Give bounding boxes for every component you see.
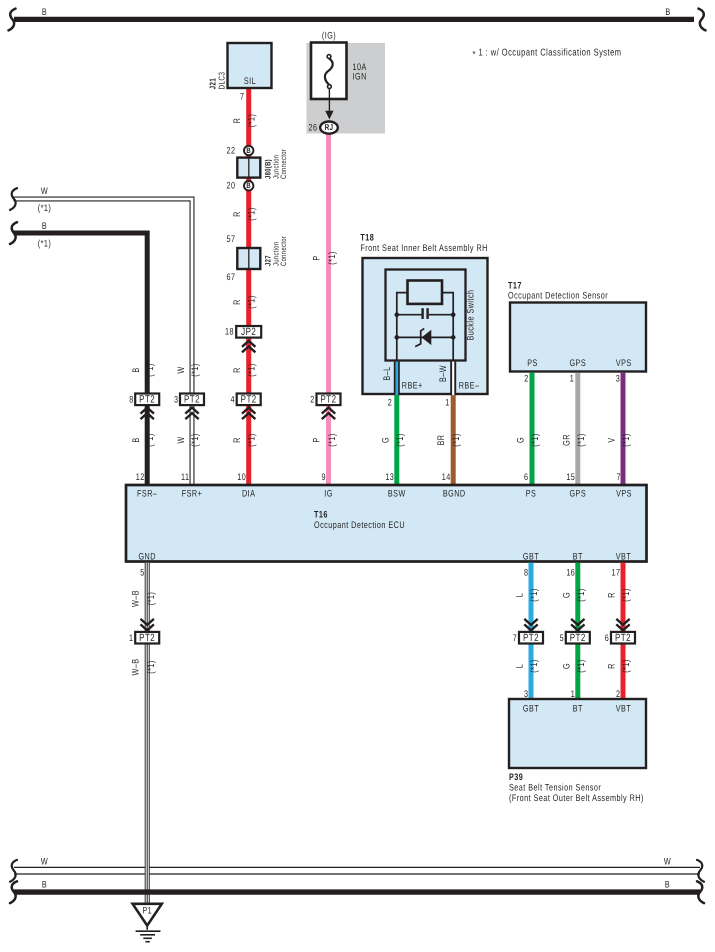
wire bus W bottom xyxy=(14,867,700,875)
svg-text:B: B xyxy=(665,7,670,18)
svg-text:Occupant Detection ECU: Occupant Detection ECU xyxy=(314,520,405,531)
label (*1) R upper xyxy=(247,114,258,128)
label Junction (J27) xyxy=(272,241,281,266)
svg-text:L: L xyxy=(515,664,526,668)
block T18 title xyxy=(360,233,488,255)
wire G green PS xyxy=(530,373,535,486)
label (*1) GBT xyxy=(529,588,540,602)
label B bottom-right xyxy=(665,880,670,891)
label W lower xyxy=(176,436,187,443)
svg-text:B: B xyxy=(665,880,670,891)
pin 5 PT2 xyxy=(560,633,564,644)
label P lower xyxy=(312,437,323,442)
svg-text:PT2: PT2 xyxy=(184,394,200,406)
junction dot diode right xyxy=(451,335,456,340)
block T17 title xyxy=(508,281,608,302)
label G BT lower xyxy=(561,663,572,669)
wire B black left xyxy=(14,233,148,486)
svg-text:18: 18 xyxy=(225,327,234,338)
pin 1 of T17 xyxy=(570,374,574,385)
pin 3 of T17 xyxy=(616,374,620,385)
svg-text:B: B xyxy=(42,880,47,891)
pin 57 xyxy=(227,234,236,245)
connector PT2 row2 c xyxy=(566,632,590,644)
label (*1) W vertical xyxy=(190,363,201,377)
svg-text:W: W xyxy=(41,186,48,197)
svg-text:W: W xyxy=(176,366,187,373)
wire G green BT xyxy=(575,563,580,699)
pin 7 of DLC3 xyxy=(240,92,244,103)
pin 6 PT2 xyxy=(605,633,609,644)
svg-text:RJ: RJ xyxy=(325,122,334,132)
svg-text:1: 1 xyxy=(445,398,449,409)
label (*1) R mid2 xyxy=(247,295,258,309)
label G BT xyxy=(561,592,572,598)
label (*1) B vertical xyxy=(145,363,156,377)
svg-text:PT2: PT2 xyxy=(139,632,155,644)
pin 2 above P39 xyxy=(616,689,620,700)
wire right branch inside buckle switch xyxy=(442,293,453,361)
wire GR gray GPS xyxy=(575,373,580,486)
svg-text:W–B: W–B xyxy=(131,590,142,607)
svg-text:(*1): (*1) xyxy=(621,659,632,673)
label R VBT xyxy=(607,592,618,598)
svg-text:(*1): (*1) xyxy=(190,433,201,447)
terminator left of bottom W bus xyxy=(10,860,17,882)
block P39 Seat Belt Tension Sensor xyxy=(509,699,646,768)
svg-text:13: 13 xyxy=(385,472,394,483)
terminator left of B wire xyxy=(10,222,17,244)
pin 16 below T16 xyxy=(566,568,575,579)
svg-text:B: B xyxy=(42,221,47,232)
junction dot cap right xyxy=(451,312,456,317)
arrowhead to RJ xyxy=(325,111,333,120)
svg-text:(*1): (*1) xyxy=(529,659,540,673)
svg-text:RBE+: RBE+ xyxy=(402,381,423,392)
ground P1 triangle xyxy=(133,904,162,926)
pin 14 xyxy=(442,472,451,483)
svg-text:GBT: GBT xyxy=(523,552,539,563)
svg-text:(*1): (*1) xyxy=(530,433,541,447)
label W bottom-right xyxy=(664,857,671,868)
svg-text:R: R xyxy=(232,118,243,124)
label W-B lower xyxy=(131,658,142,675)
label L GBT xyxy=(515,593,526,597)
svg-text:(*1): (*1) xyxy=(146,660,157,674)
svg-text:B: B xyxy=(246,181,251,190)
label G xyxy=(380,437,391,443)
svg-text:R: R xyxy=(232,211,243,217)
label B left wire xyxy=(42,221,47,232)
pin 11 xyxy=(181,472,189,483)
svg-text:(*1): (*1) xyxy=(327,433,338,447)
svg-text:3: 3 xyxy=(616,374,620,385)
pin 13 xyxy=(385,472,394,483)
label RBE+ xyxy=(402,381,423,392)
label W bottom-left xyxy=(41,857,48,868)
svg-text:PT2: PT2 xyxy=(139,394,155,406)
svg-text:PT2: PT2 xyxy=(523,632,539,644)
svg-text:16: 16 xyxy=(566,568,575,579)
svg-text:B: B xyxy=(246,146,251,155)
svg-text:(IG): (IG) xyxy=(322,31,336,42)
svg-text:(*1): (*1) xyxy=(327,251,338,265)
svg-text:PS: PS xyxy=(527,358,538,369)
wire V violet VPS xyxy=(621,373,626,486)
svg-text:2: 2 xyxy=(524,374,528,385)
block P39 title xyxy=(509,772,644,804)
label B vertical xyxy=(131,367,142,372)
label B bottom-left xyxy=(42,880,47,891)
pin 1 above P39 xyxy=(571,689,575,700)
svg-text:W: W xyxy=(664,857,671,868)
label (*1) PS xyxy=(530,433,541,447)
svg-text:(*1): (*1) xyxy=(576,659,587,673)
pin 7 of T16 xyxy=(617,472,621,483)
chevrons above PT2 row2 a xyxy=(141,619,154,631)
svg-text:7: 7 xyxy=(513,633,517,644)
wire bus B top xyxy=(14,17,694,22)
svg-text:6: 6 xyxy=(524,472,528,483)
wire R red VBT xyxy=(621,563,626,699)
svg-text:PS: PS xyxy=(526,489,537,500)
terminator right of top B bus xyxy=(699,9,706,31)
svg-text:P39: P39 xyxy=(509,772,523,783)
label RBE- xyxy=(459,381,480,392)
svg-text:(*1): (*1) xyxy=(247,207,258,221)
label (*1) W-B lower xyxy=(146,660,157,674)
ECU T16 Occupant Detection ECU xyxy=(126,485,647,563)
fuse element xyxy=(325,55,333,89)
pin 8 xyxy=(129,394,133,405)
svg-text:(*1): (*1) xyxy=(395,433,406,447)
svg-text:RBE–: RBE– xyxy=(459,381,480,392)
svg-text:1: 1 xyxy=(570,374,574,385)
svg-text:2: 2 xyxy=(310,394,314,405)
label J80(B) xyxy=(264,159,273,179)
label (*1) VBT lower xyxy=(621,659,632,673)
svg-text:14: 14 xyxy=(442,472,451,483)
label V VPS xyxy=(607,437,618,442)
connector PT2 row1 a xyxy=(135,394,159,406)
junction circle B pin 20 xyxy=(244,181,253,190)
label Connector (J80) xyxy=(279,149,288,179)
svg-text:VPS: VPS xyxy=(616,489,632,500)
label P on pink wire xyxy=(312,255,323,260)
wire R red (SIL/DIA) xyxy=(246,88,251,486)
label Connector (J27) xyxy=(279,236,288,266)
svg-text:VBT: VBT xyxy=(616,552,631,563)
svg-text:VPS: VPS xyxy=(616,358,632,369)
label (*1) P lower xyxy=(327,433,338,447)
svg-text:3: 3 xyxy=(174,394,178,405)
pin 15 xyxy=(566,472,575,483)
pin 8 below T16 xyxy=(524,568,528,579)
svg-text:(*1): (*1) xyxy=(247,295,258,309)
pin 2 xyxy=(310,394,314,405)
svg-text:W: W xyxy=(176,436,187,443)
connector PT2 row1 d xyxy=(317,394,341,406)
wire G green BSW xyxy=(394,395,399,486)
chevrons above PT2 BT xyxy=(571,619,584,631)
svg-text:G: G xyxy=(516,437,527,443)
svg-text:T16: T16 xyxy=(314,510,328,521)
label (*1) B left wire xyxy=(38,239,52,250)
label B lower xyxy=(131,437,142,442)
svg-text:6: 6 xyxy=(605,633,609,644)
pin 9 xyxy=(322,472,326,483)
label (*1) B lower xyxy=(145,433,156,447)
wire fuse to RJ xyxy=(328,88,330,112)
label DLC3 xyxy=(217,72,227,90)
svg-text:(*1): (*1) xyxy=(576,433,587,447)
pin 7 PT2 xyxy=(513,633,517,644)
svg-text:VBT: VBT xyxy=(616,704,631,715)
label B-W xyxy=(438,365,449,382)
svg-text:L: L xyxy=(515,593,526,597)
label L GBT lower xyxy=(515,664,526,668)
pin 1 of T18 xyxy=(445,398,449,409)
pin 3 above P39 xyxy=(524,689,528,700)
svg-text:PT2: PT2 xyxy=(615,632,631,644)
wire L blue GBT xyxy=(529,563,534,699)
svg-text:IG: IG xyxy=(324,489,333,500)
svg-text:5: 5 xyxy=(140,568,144,579)
svg-text:(Front Seat Outer Belt Assembl: (Front Seat Outer Belt Assembly RH) xyxy=(509,793,644,804)
pin 10 xyxy=(237,472,246,483)
svg-text:BSW: BSW xyxy=(388,489,406,500)
svg-text:11: 11 xyxy=(181,472,189,483)
svg-text:5: 5 xyxy=(560,633,564,644)
label W left wire xyxy=(41,186,48,197)
svg-text:7: 7 xyxy=(617,472,621,483)
svg-text:R: R xyxy=(232,437,243,443)
svg-text:(*1): (*1) xyxy=(621,588,632,602)
svg-text:22: 22 xyxy=(227,145,236,156)
svg-text:4: 4 xyxy=(231,394,235,405)
label (*1) R lower xyxy=(247,433,258,447)
chevrons above PT2 VBT xyxy=(616,619,629,631)
wire W white left xyxy=(14,199,193,486)
svg-text:R: R xyxy=(232,367,243,373)
svg-text:P: P xyxy=(312,437,323,442)
svg-text:BGND: BGND xyxy=(443,489,466,500)
svg-text:(*1): (*1) xyxy=(38,203,52,214)
terminator right of bottom B bus xyxy=(697,881,704,903)
svg-text:12: 12 xyxy=(136,472,145,483)
ground hatch xyxy=(136,931,161,942)
svg-text:BT: BT xyxy=(573,704,583,715)
svg-text:W: W xyxy=(41,857,48,868)
pin 67 xyxy=(227,272,236,283)
label G PS xyxy=(516,437,527,443)
svg-text:FSR+: FSR+ xyxy=(182,489,203,500)
wire P pink (IG feed) xyxy=(326,133,331,486)
svg-text:P1: P1 xyxy=(142,906,151,917)
svg-text:PT2: PT2 xyxy=(320,394,336,406)
label J21 xyxy=(208,78,218,90)
ground stem xyxy=(146,926,148,930)
svg-text:(*1): (*1) xyxy=(145,363,156,377)
svg-text:T18: T18 xyxy=(360,233,374,244)
label B top-right xyxy=(665,7,670,18)
svg-text:(*1): (*1) xyxy=(451,433,462,447)
label R mid3 xyxy=(232,367,243,373)
label (*1) R mid1 xyxy=(247,207,258,221)
svg-text:(*1): (*1) xyxy=(576,588,587,602)
svg-text:9: 9 xyxy=(322,472,326,483)
svg-text:GBT: GBT xyxy=(523,704,539,715)
label (*1) GBT lower xyxy=(529,659,540,673)
svg-text:67: 67 xyxy=(227,272,236,283)
label (*1) W lower xyxy=(190,433,201,447)
terminator left of W wire xyxy=(10,188,17,210)
svg-text:(*1): (*1) xyxy=(621,433,632,447)
junction connector J80(B) xyxy=(237,158,260,178)
svg-text:P: P xyxy=(312,255,323,260)
svg-text:(*1): (*1) xyxy=(529,588,540,602)
connector JP2 xyxy=(236,326,261,338)
svg-text:(*1): (*1) xyxy=(247,363,258,377)
label (*1) BT xyxy=(576,588,587,602)
wire W-B ground wire xyxy=(145,563,150,904)
block T18 Front Seat Inner Belt Assembly RH xyxy=(363,258,488,394)
note occupant classification xyxy=(473,48,622,61)
label (*1) BT lower xyxy=(576,659,587,673)
chevrons below PT2 c xyxy=(242,408,255,420)
label R mid1 xyxy=(232,211,243,217)
svg-text:BT: BT xyxy=(573,552,583,563)
chevrons below PT2 b xyxy=(185,408,198,420)
label J27 xyxy=(264,255,273,266)
label (*1) R mid3 xyxy=(247,363,258,377)
chevrons above PT2 GBT xyxy=(524,619,537,631)
svg-text:G: G xyxy=(380,437,391,443)
terminator right of bottom W bus xyxy=(697,860,704,882)
junction dot cap left xyxy=(395,312,400,317)
svg-text:B–W: B–W xyxy=(438,365,449,382)
connector PT2 row2 b xyxy=(519,632,543,644)
svg-text:(*1): (*1) xyxy=(146,592,157,606)
svg-text:8: 8 xyxy=(524,568,528,579)
svg-text:B: B xyxy=(42,7,47,18)
svg-text:Connector: Connector xyxy=(279,236,288,266)
connector PT2 row2 d xyxy=(611,632,635,644)
label R lower xyxy=(232,437,243,443)
svg-text:V: V xyxy=(607,437,618,442)
label (*1) BR xyxy=(451,433,462,447)
pin 26 of RJ xyxy=(309,123,318,134)
svg-text:B: B xyxy=(131,437,142,442)
svg-text:B–L: B–L xyxy=(382,366,393,380)
label (*1) GPS xyxy=(576,433,587,447)
svg-text:R: R xyxy=(607,592,618,598)
label (*1) VBT xyxy=(621,588,632,602)
svg-text:1: 1 xyxy=(129,633,133,644)
svg-text:2: 2 xyxy=(388,398,392,409)
label Junction (J80) xyxy=(272,154,281,179)
svg-text:JP2: JP2 xyxy=(241,326,256,338)
svg-text:7: 7 xyxy=(240,92,244,103)
label (*1) W left wire xyxy=(38,203,52,214)
terminator left of bottom B bus xyxy=(10,881,17,903)
label B top-left xyxy=(42,7,47,18)
pin 2 of T17 xyxy=(524,374,528,385)
label W-B upper xyxy=(131,590,142,607)
wire bus B bottom xyxy=(14,889,700,894)
svg-text:FSR–: FSR– xyxy=(137,489,157,500)
svg-text:W–B: W–B xyxy=(131,658,142,675)
svg-text:* 1 : w/ Occupant Classificati: * 1 : w/ Occupant Classification System xyxy=(473,48,622,61)
label W vertical xyxy=(176,366,187,373)
pin 6 xyxy=(524,472,528,483)
wire B-W stripe xyxy=(450,362,456,396)
label (*1) W-B upper xyxy=(146,592,157,606)
pin 3 xyxy=(174,394,178,405)
label R VBT lower xyxy=(607,663,618,669)
label R upper xyxy=(232,118,243,124)
svg-text:PT2: PT2 xyxy=(570,632,586,644)
svg-text:10: 10 xyxy=(237,472,246,483)
svg-text:GR: GR xyxy=(561,434,572,446)
fuse block 10A IGN xyxy=(307,43,386,134)
svg-text:PT2: PT2 xyxy=(241,394,257,406)
block T17 Occupant Detection Sensor xyxy=(510,303,646,372)
svg-text:57: 57 xyxy=(227,234,236,245)
chevrons below JP2 xyxy=(242,341,255,353)
connector PT2 row2 a xyxy=(135,632,159,644)
connector PT2 row1 b xyxy=(180,394,204,406)
svg-text:GPS: GPS xyxy=(569,358,586,369)
junction connector J27 xyxy=(237,248,260,269)
pin 18 xyxy=(225,327,234,338)
svg-text:8: 8 xyxy=(129,394,133,405)
svg-text:SIL: SIL xyxy=(244,76,256,87)
svg-text:(*1): (*1) xyxy=(247,433,258,447)
svg-text:Occupant Detection Sensor: Occupant Detection Sensor xyxy=(508,291,608,302)
connector PT2 row1 c xyxy=(237,394,261,406)
label BR xyxy=(436,435,447,446)
svg-text:15: 15 xyxy=(566,472,575,483)
svg-text:GPS: GPS xyxy=(569,489,586,500)
junction dot diode left xyxy=(395,335,400,340)
svg-text:20: 20 xyxy=(227,181,236,192)
pin 4 xyxy=(231,394,235,405)
pin 2 of T18 xyxy=(388,398,392,409)
svg-text:Front Seat Inner Belt Assembly: Front Seat Inner Belt Assembly RH xyxy=(360,243,488,254)
capacitor C inside buckle switch xyxy=(397,308,453,319)
svg-text:Connector: Connector xyxy=(279,149,288,179)
svg-text:26: 26 xyxy=(309,123,318,134)
wire BR brown BGND xyxy=(451,395,456,486)
svg-text:GND: GND xyxy=(138,552,155,563)
pin 20 xyxy=(227,181,236,192)
wire left branch inside buckle switch xyxy=(397,293,408,361)
zener diode inside buckle switch xyxy=(397,329,453,347)
label GR GPS xyxy=(561,434,572,446)
label R mid2 xyxy=(232,299,243,305)
svg-text:(*1): (*1) xyxy=(145,433,156,447)
svg-text:(*1): (*1) xyxy=(38,239,52,250)
svg-text:IGN: IGN xyxy=(353,72,367,83)
label Buckle Switch xyxy=(466,289,477,340)
svg-text:G: G xyxy=(561,592,572,598)
svg-text:DLC3: DLC3 xyxy=(217,72,227,90)
label (*1) on pink wire xyxy=(327,251,338,265)
terminator left of top B bus xyxy=(9,9,16,31)
label (IG) xyxy=(322,31,336,42)
junction circle B pin 22 xyxy=(244,146,253,155)
